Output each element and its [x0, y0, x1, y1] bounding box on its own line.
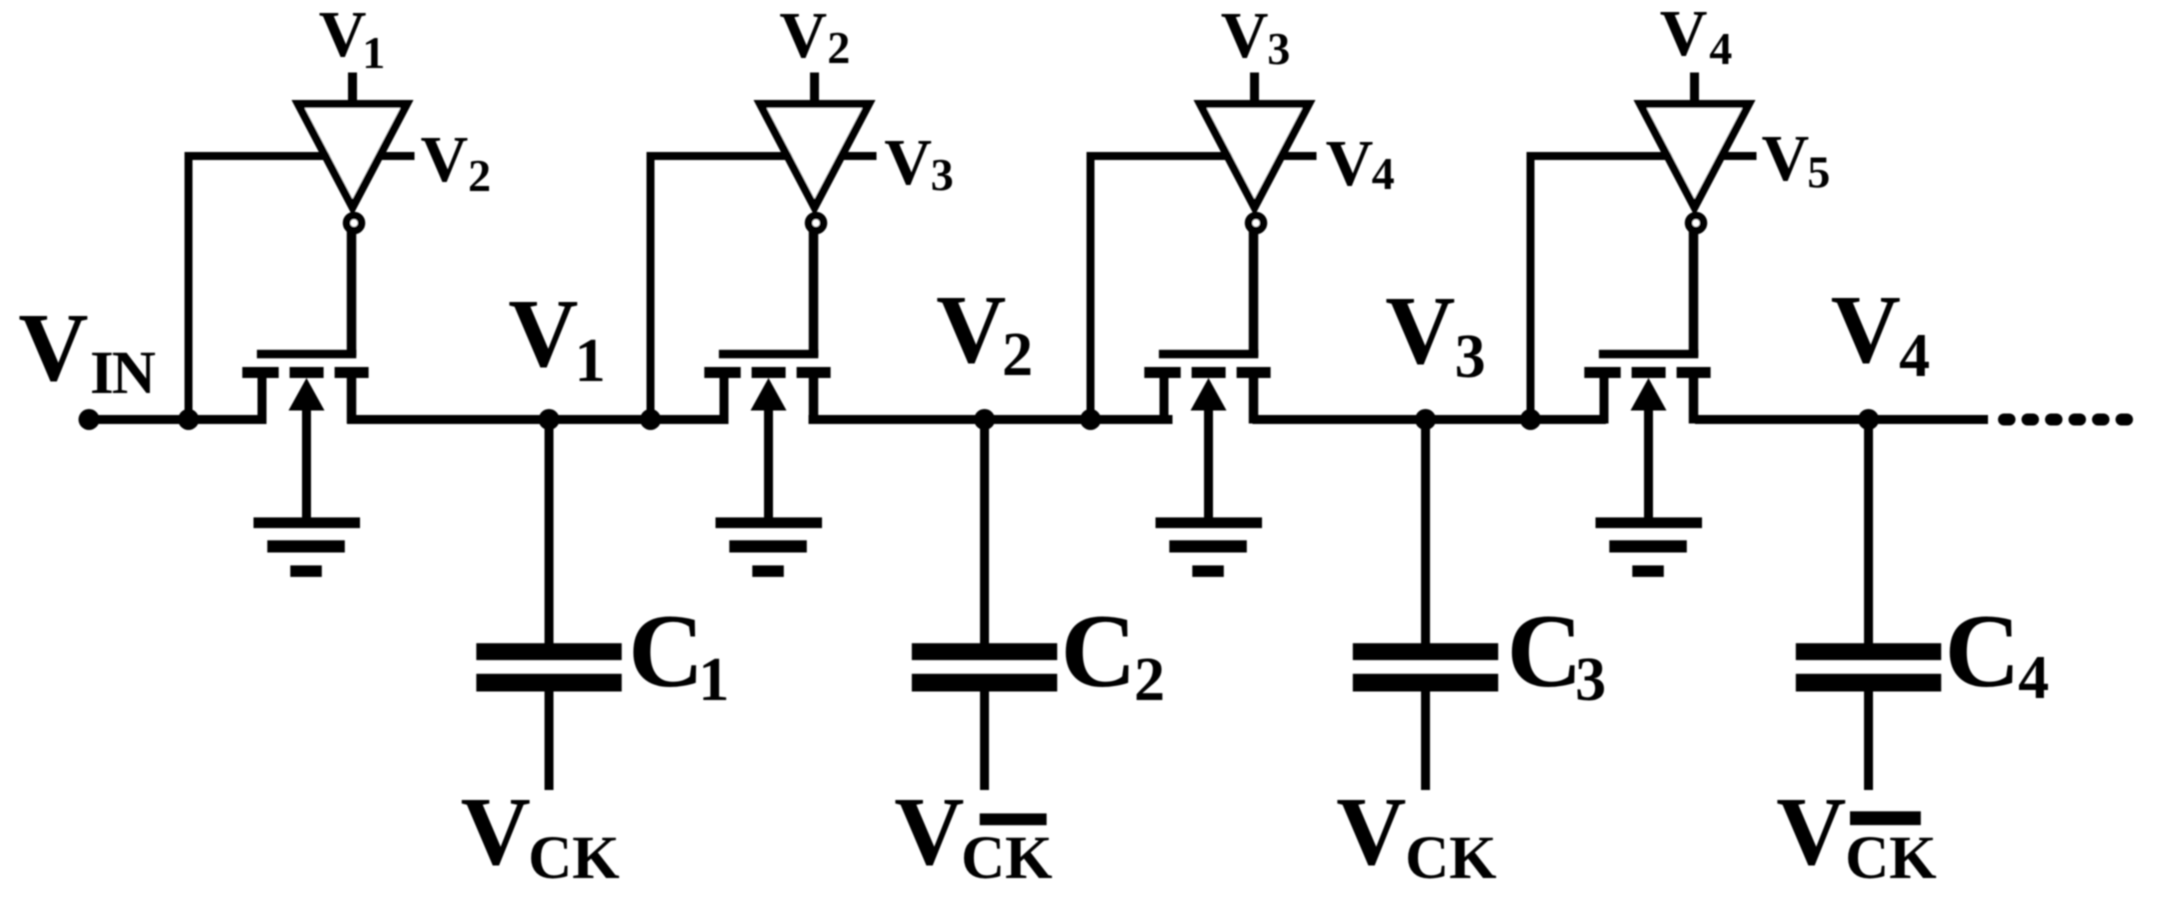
- svg-text:V: V: [1336, 778, 1406, 885]
- transistor M1 gate bar: [257, 350, 356, 359]
- ground symbol (stage 2): [716, 517, 823, 577]
- wire: gate wire from U1 bubble to M1: [347, 230, 357, 356]
- output bubble of U4: [1689, 216, 1704, 231]
- svg-text:2: 2: [1002, 321, 1033, 389]
- transistor M1 drain stub: [347, 377, 357, 424]
- svg-text:3: 3: [1455, 323, 1486, 391]
- wire: capacitor C1 bottom lead: [545, 690, 554, 790]
- svg-text:CK: CK: [528, 825, 620, 892]
- svg-text:V: V: [1762, 122, 1810, 195]
- wire: right input stub of U1: [378, 152, 415, 160]
- wire: feedback vertical from rail node (stage 4): [1527, 152, 1535, 423]
- wire: node V3 down to capacitor C3: [1421, 420, 1430, 644]
- svg-text:V: V: [884, 126, 932, 199]
- svg-text:C: C: [628, 592, 704, 709]
- svg-text:V: V: [894, 778, 964, 885]
- junction dot: feedback tap on rail (stage 2): [640, 409, 661, 430]
- label C2: [1061, 592, 1165, 714]
- label VCK (stage 3): [1336, 778, 1496, 892]
- transistor M1 body/bulk arrow: [289, 378, 325, 522]
- ground symbol (stage 1): [254, 517, 361, 577]
- ground symbol (stage 3): [1156, 517, 1263, 577]
- label node V1: [508, 280, 605, 395]
- comparator U1 (triangle): [292, 100, 414, 216]
- transistor M3 source stub: [1160, 377, 1169, 424]
- svg-text:4: 4: [1709, 23, 1732, 74]
- svg-text:CK: CK: [961, 825, 1053, 892]
- output bubble of U1: [347, 216, 362, 231]
- wire: right input stub of U4: [1720, 152, 1757, 160]
- wire: dashed rail continuation: [1998, 414, 2133, 426]
- wire: capacitor C3 bottom lead: [1421, 690, 1430, 790]
- comparator U2 (triangle): [754, 100, 876, 216]
- capacitor C2 plates: [912, 643, 1057, 691]
- wire: gate wire from U3 bubble to M3: [1249, 230, 1259, 356]
- wire: feedback vertical from rail node (stage 2): [647, 152, 655, 423]
- comparator U4 (triangle): [1634, 100, 1756, 216]
- svg-text:V: V: [461, 778, 531, 885]
- transistor M2 source stub: [720, 377, 729, 424]
- capacitor C3 plates: [1353, 643, 1498, 691]
- wire: rail segment node V2: M2 drain to M3 source: [809, 415, 1173, 424]
- wire: capacitor C2 bottom lead: [980, 690, 989, 790]
- label VIN: [18, 294, 155, 407]
- svg-text:V: V: [508, 280, 578, 387]
- transistor M2 body/bulk arrow: [751, 378, 787, 522]
- svg-text:1: 1: [575, 327, 606, 395]
- svg-text:1: 1: [362, 27, 385, 78]
- wire: gate wire from U2 bubble to M2: [809, 230, 819, 356]
- wire: rail segment node V4: M4 drain to output: [1695, 415, 1988, 424]
- transistor M3 channel segments: [1144, 367, 1270, 378]
- transistor M3 gate bar: [1159, 350, 1258, 359]
- junction dot: node V4 on rail: [1858, 409, 1879, 430]
- wire: node V4 down to capacitor C4: [1864, 420, 1873, 644]
- junction dot: node V1 on rail: [539, 409, 560, 430]
- label node V2: [936, 276, 1033, 389]
- output bubble of U2: [809, 216, 824, 231]
- label C4: [1945, 592, 2050, 712]
- comparator U3 (triangle): [1194, 100, 1316, 216]
- svg-text:V: V: [18, 294, 88, 401]
- label V2 (comparator + input, top): [779, 0, 850, 73]
- transistor M4 gate bar: [1599, 350, 1698, 359]
- junction dot: feedback tap on rail (stage 1): [178, 409, 199, 430]
- label V3 (comparator - input, right): [884, 126, 953, 200]
- svg-text:V: V: [1385, 277, 1455, 384]
- junction dot: feedback tap on rail (stage 4): [1520, 409, 1541, 430]
- label node V3: [1385, 277, 1485, 391]
- wire: feedback vertical from rail node (stage 3): [1087, 152, 1095, 423]
- capacitor C1 plates: [476, 643, 621, 691]
- wire: top input stub of U2: [810, 73, 819, 108]
- svg-text:2: 2: [468, 150, 491, 201]
- svg-text:4: 4: [1372, 148, 1395, 199]
- label V5 (comparator - input, right): [1762, 122, 1831, 198]
- label VCK(bar) (stage 2): [894, 778, 1052, 892]
- wire: feedback vertical from rail node (stage 1): [185, 152, 193, 423]
- svg-text:V: V: [319, 0, 367, 71]
- label node V4: [1831, 276, 1930, 390]
- svg-text:V: V: [1221, 0, 1269, 72]
- label V4 (comparator - input, right): [1326, 127, 1395, 200]
- wire: top input stub of U4: [1690, 73, 1699, 108]
- svg-text:V: V: [421, 123, 469, 196]
- label V1 (comparator + input, top): [319, 0, 385, 78]
- capacitor C4 plates: [1796, 643, 1941, 691]
- output bubble of U3: [1249, 216, 1264, 231]
- wire: node V1 down to capacitor C1: [545, 420, 554, 644]
- svg-text:C: C: [1945, 592, 2021, 709]
- ground symbol (stage 4): [1596, 517, 1703, 577]
- label VCK(bar) (stage 4): [1776, 778, 1936, 892]
- transistor M2 drain stub: [809, 377, 819, 424]
- svg-text:3: 3: [1267, 23, 1290, 74]
- label V3 (comparator + input, top): [1221, 0, 1290, 74]
- wire: top input stub of U1: [348, 73, 357, 108]
- svg-text:IN: IN: [90, 340, 156, 407]
- transistor M2 gate bar: [719, 350, 818, 359]
- wire: gate wire from U4 bubble to M4: [1689, 230, 1699, 356]
- transistor M3 body/bulk arrow: [1191, 378, 1227, 522]
- svg-text:C: C: [1507, 592, 1583, 709]
- wire: right input stub of U2: [840, 152, 877, 160]
- svg-text:V: V: [1831, 276, 1901, 383]
- svg-text:V: V: [1326, 127, 1374, 200]
- svg-text:C: C: [1061, 592, 1137, 709]
- label VCK (stage 1): [461, 778, 620, 892]
- svg-text:4: 4: [2018, 644, 2049, 712]
- svg-text:CK: CK: [1845, 825, 1937, 892]
- transistor M1 channel segments: [242, 367, 368, 378]
- svg-text:V: V: [1660, 0, 1708, 70]
- svg-text:V: V: [779, 0, 827, 72]
- wire: feedback horizontal into U3 left input: [1087, 152, 1233, 160]
- junction dot: feedback tap on rail (stage 3): [1080, 409, 1101, 430]
- transistor M1 source stub: [258, 377, 267, 424]
- wire: feedback horizontal into U4 left input: [1527, 152, 1673, 160]
- label V4 (comparator + input, top): [1660, 0, 1733, 74]
- wire: capacitor C4 bottom lead: [1864, 690, 1873, 790]
- transistor M4 source stub: [1600, 377, 1609, 424]
- label C1: [628, 592, 729, 714]
- junction dot: node V3 on rail: [1415, 409, 1436, 430]
- wire: rail segment node V3: M3 drain to M4 source: [1253, 415, 1607, 424]
- wire: top input stub of U3: [1250, 73, 1259, 108]
- transistor M4 channel segments: [1584, 367, 1710, 378]
- wire: feedback horizontal into U1 left input: [185, 152, 331, 160]
- wire: rail segment node V1: M1 drain to M2 source: [347, 415, 729, 424]
- node VIN terminal dot: [79, 409, 100, 430]
- svg-text:5: 5: [1807, 147, 1830, 198]
- wire: rail segment VIN to M1 source: [89, 415, 267, 424]
- svg-text:2: 2: [827, 22, 850, 73]
- svg-text:CK: CK: [1405, 825, 1497, 892]
- junction dot: node V2 on rail: [974, 409, 995, 430]
- label V2 (comparator - input, right): [421, 123, 492, 201]
- transistor M4 drain stub: [1689, 377, 1699, 424]
- wire: node V2 down to capacitor C2: [980, 420, 989, 644]
- svg-text:3: 3: [931, 149, 954, 200]
- svg-text:3: 3: [1575, 646, 1606, 714]
- svg-text:2: 2: [1134, 646, 1165, 714]
- svg-text:V: V: [936, 276, 1006, 383]
- wire: right input stub of U3: [1280, 152, 1317, 160]
- transistor M3 drain stub: [1249, 377, 1259, 424]
- transistor M2 channel segments: [704, 367, 830, 378]
- svg-text:1: 1: [698, 646, 729, 714]
- transistor M4 body/bulk arrow: [1631, 378, 1667, 522]
- svg-text:4: 4: [1899, 322, 1930, 390]
- svg-text:V: V: [1776, 778, 1846, 885]
- wire: feedback horizontal into U2 left input: [647, 152, 793, 160]
- label C3: [1507, 592, 1606, 714]
